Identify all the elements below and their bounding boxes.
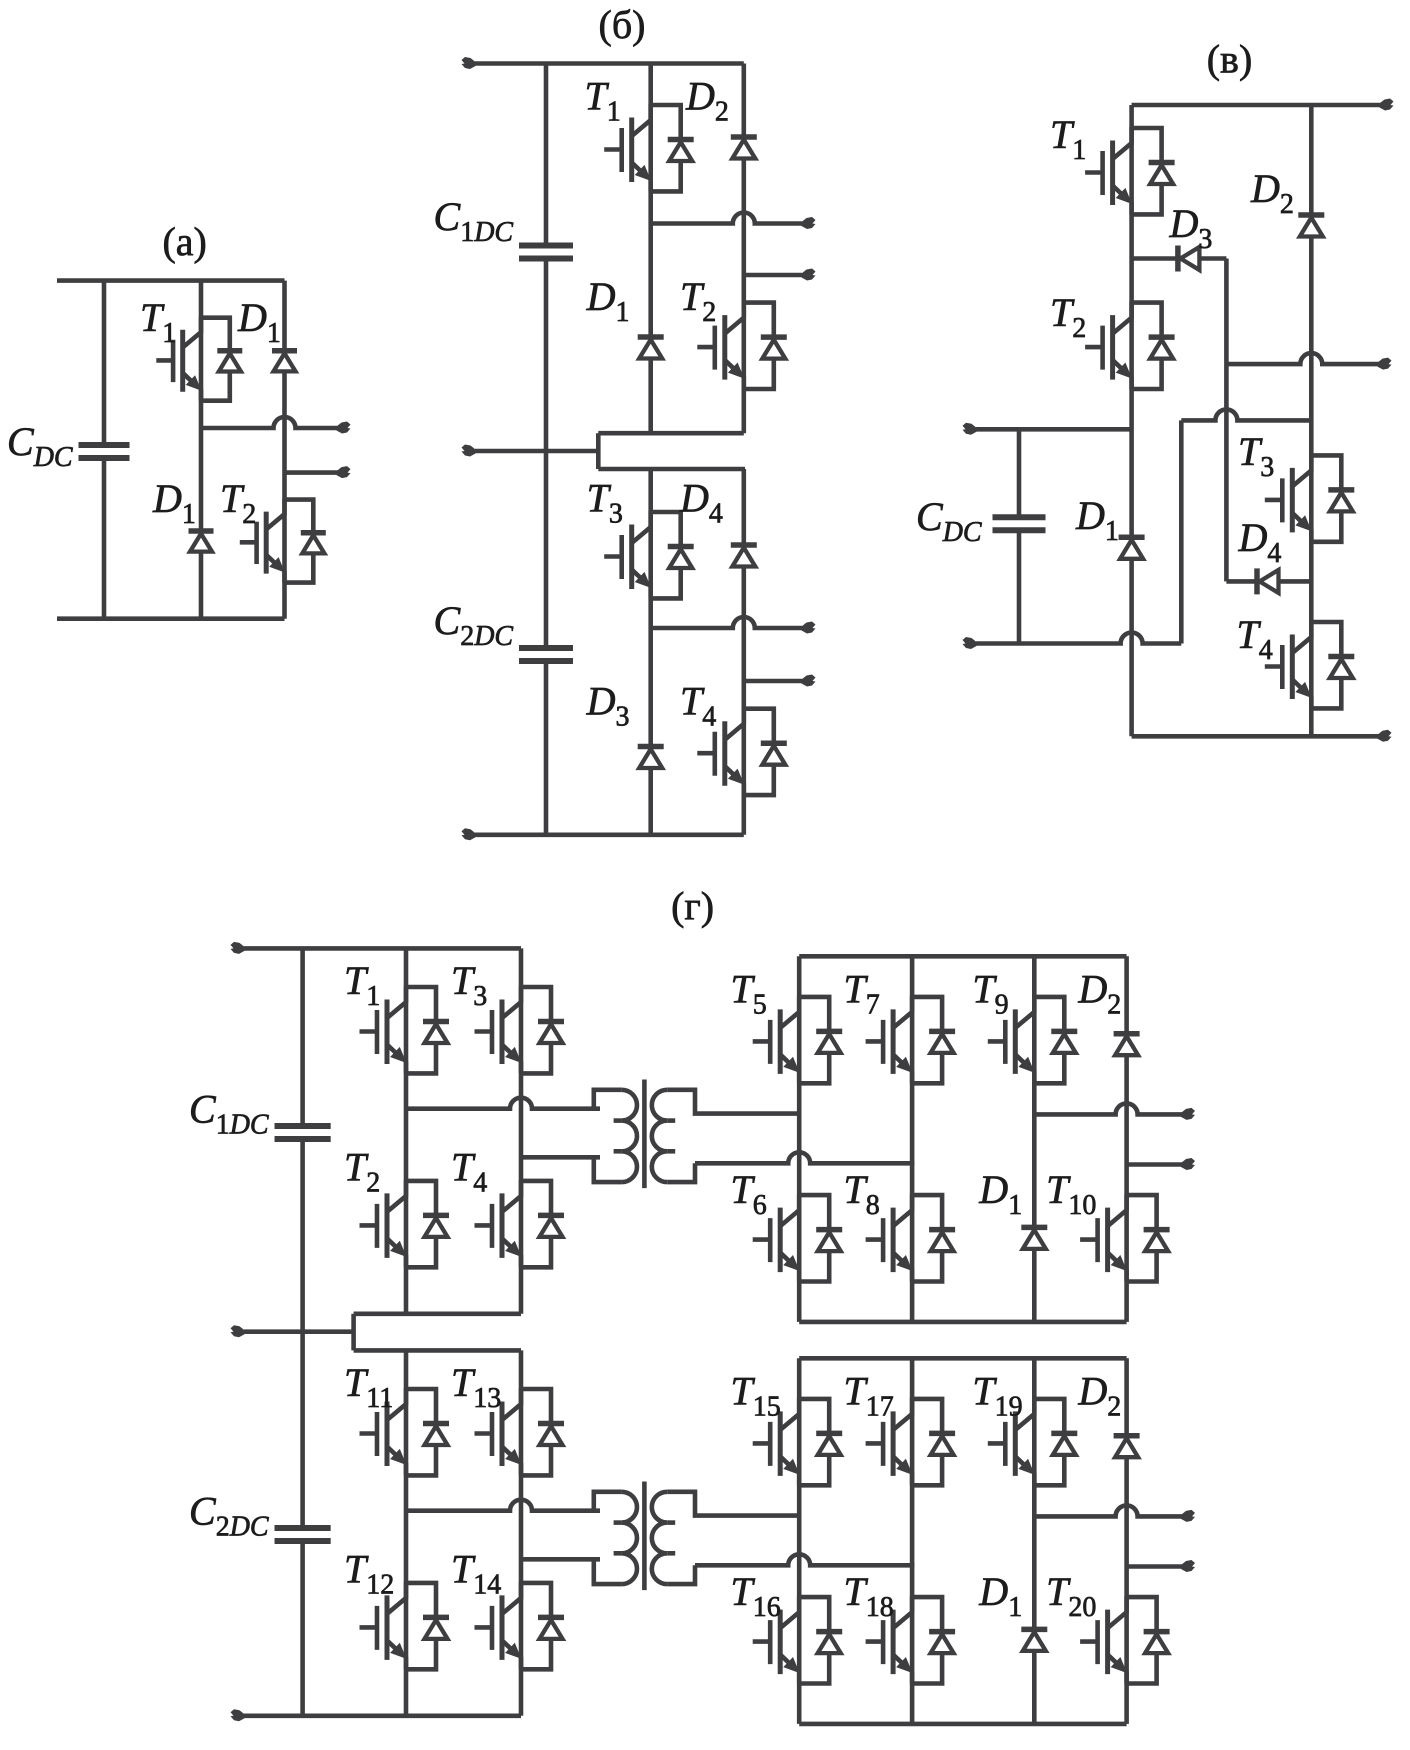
- svg-text:(б): (б): [599, 2, 646, 47]
- svg-text:(г): (г): [671, 884, 714, 929]
- svg-text:(в): (в): [1207, 37, 1253, 82]
- svg-text:(а): (а): [162, 219, 206, 264]
